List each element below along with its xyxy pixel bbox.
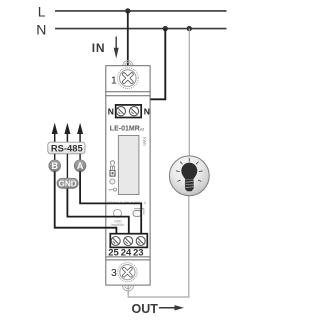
svg-text:23: 23 bbox=[133, 248, 144, 259]
wire RS-485 box to GND bbox=[66, 154, 68, 179]
svg-text:CE: CE bbox=[108, 160, 115, 170]
DIN rail release tab icon bbox=[109, 188, 117, 191]
svg-text:IN: IN bbox=[92, 41, 106, 55]
wire GND to terminal 24 bbox=[67, 189, 128, 235]
LED pulse window bbox=[133, 211, 141, 217]
svg-text:N: N bbox=[36, 21, 46, 37]
N terminal screw right bbox=[129, 107, 138, 116]
svg-text:v2: v2 bbox=[140, 126, 145, 131]
wire L to meter input terminal 1 bbox=[127, 11, 129, 66]
meter bottom section divider bbox=[106, 256, 150, 258]
svg-text:kWh: kWh bbox=[142, 137, 147, 146]
svg-text:N: N bbox=[108, 106, 114, 116]
svg-text:25: 25 bbox=[108, 248, 119, 259]
wire lamp to OUT loop bbox=[128, 194, 189, 297]
certification circle icon bbox=[110, 179, 115, 184]
svg-text:imp/kWh: imp/kWh bbox=[111, 223, 124, 227]
wire RS-485 box to B bbox=[54, 154, 56, 161]
wire B to terminal 25 bbox=[55, 171, 117, 234]
junction on N to lamp bbox=[187, 26, 192, 31]
rays bbox=[176, 158, 203, 182]
RS-485 terminal block bbox=[110, 234, 147, 248]
svg-text:L: L bbox=[38, 4, 46, 20]
wire N to meter N terminal bbox=[134, 29, 165, 105]
class II insulation square icon bbox=[110, 170, 115, 176]
svg-text:OUT: OUT bbox=[132, 302, 159, 316]
terminal 1 screw bbox=[117, 68, 138, 89]
wire N to lamp (top) bbox=[188, 29, 190, 157]
svg-text:3: 3 bbox=[111, 267, 117, 279]
junction on N to meter bbox=[163, 26, 168, 31]
IN arrow bbox=[114, 37, 119, 59]
svg-text:B: B bbox=[51, 161, 58, 171]
bulb silhouette bbox=[181, 163, 197, 180]
terminal 3 screw bbox=[118, 263, 137, 282]
N terminal screw left bbox=[116, 107, 125, 116]
meter U1 body bbox=[106, 66, 150, 285]
terminal 24 screw bbox=[124, 237, 133, 246]
clamp circles below terminal 3 bbox=[122, 285, 133, 291]
terminal A bubble bbox=[74, 160, 86, 172]
lamp E1 bbox=[169, 156, 209, 196]
wire N line bbox=[55, 28, 227, 30]
svg-text:24: 24 bbox=[121, 248, 132, 259]
svg-text:A: A bbox=[77, 161, 84, 171]
LCD display bbox=[118, 136, 138, 195]
meter top section divider bbox=[106, 91, 150, 93]
LED pulse window bracket bbox=[134, 209, 144, 215]
terminal GND bubble bbox=[57, 178, 78, 188]
terminal B bubble bbox=[49, 160, 61, 172]
wire A to terminal 23 bbox=[80, 171, 141, 234]
svg-text:LE-01MR: LE-01MR bbox=[110, 125, 140, 132]
svg-text:RS-485: RS-485 bbox=[51, 142, 83, 153]
svg-text:N: N bbox=[144, 106, 150, 116]
terminal 23 screw bbox=[136, 237, 145, 246]
svg-text:1: 1 bbox=[111, 75, 117, 86]
RS-485 arrows bbox=[52, 123, 83, 143]
svg-text:GND: GND bbox=[58, 179, 76, 188]
reset button circle bbox=[114, 209, 122, 217]
clamp circle above terminal 1 bbox=[123, 61, 133, 66]
wire RS-485 box to A bbox=[79, 154, 81, 161]
junction on L at phase tap bbox=[125, 8, 130, 13]
terminal 25 screw bbox=[111, 237, 120, 246]
N-N terminal box bbox=[116, 105, 142, 118]
wire L line bbox=[55, 10, 227, 12]
OUT arrow bbox=[159, 305, 184, 310]
RS-485 label box bbox=[48, 142, 85, 154]
